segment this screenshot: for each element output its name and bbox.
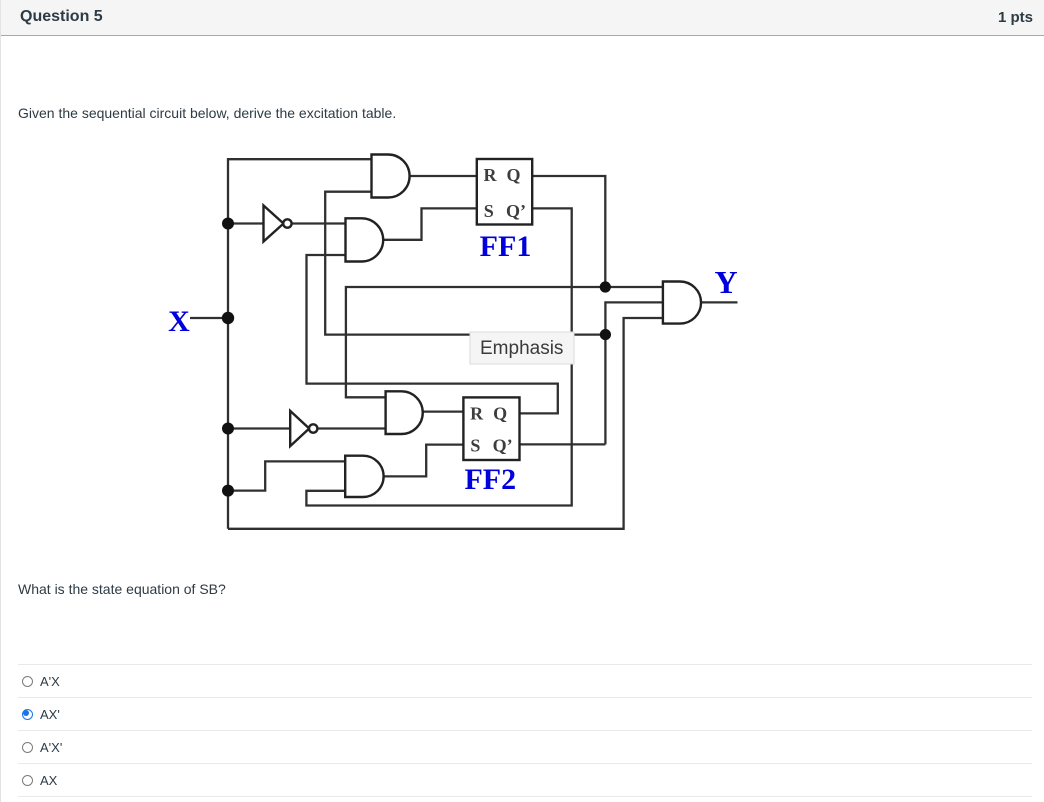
svg-text:X: X [168, 305, 190, 338]
svg-text:Q’: Q’ [506, 201, 526, 221]
svg-text:R: R [484, 165, 498, 185]
svg-text:FF1: FF1 [480, 230, 532, 263]
svg-text:Q: Q [493, 404, 507, 424]
svg-text:S: S [484, 201, 494, 221]
svg-text:Y: Y [714, 264, 737, 300]
svg-text:S: S [470, 436, 480, 456]
svg-text:R: R [470, 404, 484, 424]
svg-text:Q’: Q’ [493, 436, 513, 456]
svg-text:Q: Q [506, 165, 520, 185]
svg-text:FF2: FF2 [464, 463, 516, 496]
svg-text:Emphasis: Emphasis [480, 338, 563, 359]
